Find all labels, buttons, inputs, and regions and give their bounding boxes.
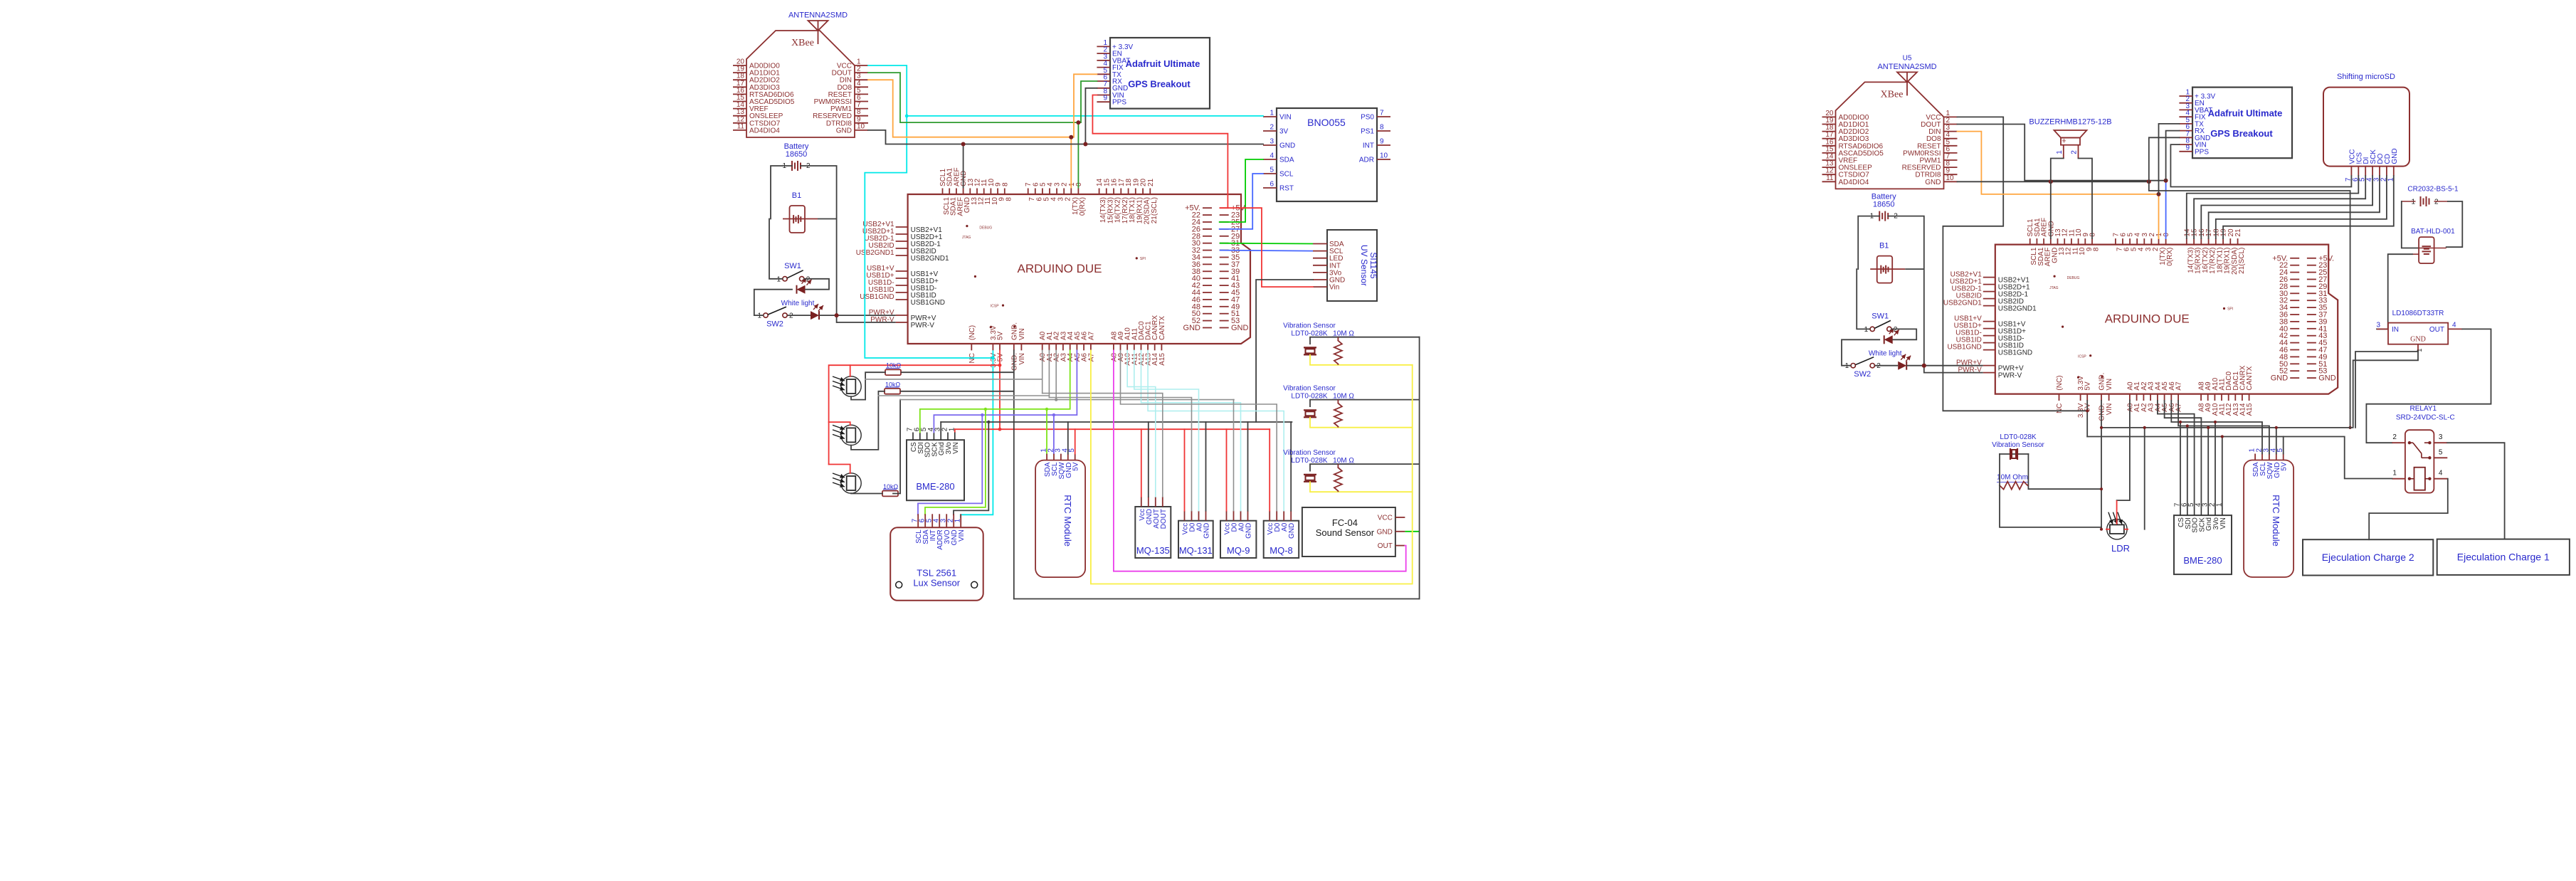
junction ldr right	[2143, 426, 2146, 429]
wire BME Gnd up (right)	[2207, 428, 2209, 508]
junction red 5v	[998, 364, 1002, 367]
svg-text:BME-280: BME-280	[2183, 555, 2222, 566]
svg-text:GND: GND	[1245, 523, 1253, 539]
svg-text:GND: GND	[2318, 374, 2336, 383]
svg-text:2: 2	[2071, 150, 2079, 154]
svg-text:TSL 2561: TSL 2561	[917, 567, 956, 578]
TSL 2561 lux sensor	[890, 514, 983, 601]
wire battery2 down (right)	[1888, 216, 1924, 373]
svg-text:ARDUINO DUE: ARDUINO DUE	[1017, 262, 1102, 275]
Arduino Due (right)	[1943, 218, 2338, 421]
svg-text:XBee: XBee	[1881, 89, 1904, 100]
battery 18650 (left)	[782, 142, 811, 171]
svg-text:White light: White light	[1869, 349, 1902, 357]
svg-text:VCC: VCC	[1378, 515, 1393, 522]
svg-text:RELAY1: RELAY1	[2410, 405, 2437, 413]
svg-text:PWR-V: PWR-V	[1998, 372, 2022, 380]
wire LDR3 out	[851, 492, 882, 494]
svg-text:7: 7	[1380, 110, 1384, 117]
svg-text:3: 3	[2439, 433, 2443, 441]
svg-text:ICSP: ICSP	[2078, 354, 2086, 359]
wire microSD pin4	[2201, 176, 2372, 238]
svg-text:21: 21	[1147, 178, 1155, 186]
svg-text:VIN: VIN	[2219, 517, 2227, 529]
battery 18650 (right)	[1870, 193, 1899, 221]
vibration sensor LDT0-028K (right)	[1992, 433, 2044, 490]
svg-text:VIN: VIN	[1279, 114, 1292, 122]
wire SW2-LED2 (right)	[1875, 365, 1899, 366]
svg-text:1: 1	[1845, 362, 1849, 370]
svg-text:5V: 5V	[997, 331, 1005, 340]
svg-text:9: 9	[1103, 95, 1107, 102]
wire PWR-V stub	[837, 322, 896, 323]
wire A7 rail (right)	[2178, 401, 2269, 454]
MQ-131 gas sensor	[1178, 511, 1213, 558]
wire gray A9-MQ8 D0	[1121, 350, 1277, 510]
wire LED to SW2	[754, 290, 792, 315]
svg-text:ANTENNA2SMD: ANTENNA2SMD	[788, 11, 848, 20]
svg-text:RTC Module: RTC Module	[1062, 495, 1073, 547]
svg-text:10: 10	[857, 122, 865, 130]
svg-text:2: 2	[2392, 433, 2397, 441]
resistor R1 10k	[885, 362, 902, 375]
svg-text:ARDUINO DUE: ARDUINO DUE	[2105, 312, 2190, 326]
svg-text:PS0: PS0	[1361, 114, 1374, 122]
svg-text:MQ-131: MQ-131	[1179, 545, 1213, 556]
svg-text:GND: GND	[1203, 523, 1211, 539]
wire GPS RX (right)	[2166, 131, 2180, 181]
XBee U5 (right)	[1822, 54, 1958, 189]
svg-text:Adafruit Ultimate: Adafruit Ultimate	[2208, 108, 2283, 119]
svg-text:6: 6	[1269, 181, 1274, 189]
wire red RTC 5V	[1075, 429, 1076, 453]
svg-text:CR2032-BS-5-1: CR2032-BS-5-1	[2407, 185, 2459, 193]
svg-text:OUT: OUT	[1378, 542, 1393, 550]
svg-text:10: 10	[1380, 152, 1388, 160]
photoresistor LDR1 (left)	[833, 376, 861, 396]
wire LDT resistor stubs	[2000, 485, 2028, 486]
svg-text:A7: A7	[2175, 381, 2183, 391]
wire red MQ Vcc	[1269, 429, 1270, 511]
svg-text:VIN: VIN	[1018, 353, 1026, 365]
wire green SI SDA	[1220, 243, 1313, 245]
wire orange 1TX drop	[1070, 137, 1072, 189]
LED D1 (left)	[797, 278, 812, 294]
junction dout (right)	[2164, 179, 2168, 183]
svg-text:2: 2	[789, 312, 793, 320]
svg-text:DEBUG: DEBUG	[2067, 276, 2080, 280]
svg-text:OUT: OUT	[2429, 326, 2444, 334]
svg-text:A15: A15	[2246, 403, 2254, 416]
LED D1 (right)	[1884, 328, 1899, 344]
svg-text:SW1: SW1	[784, 262, 801, 270]
wire B1 to SW1	[769, 219, 783, 279]
svg-text:USB1GND: USB1GND	[1947, 344, 1981, 352]
Shifting microSD module	[2323, 73, 2409, 181]
svg-text:VIN: VIN	[2106, 379, 2113, 391]
vibration sensor LDT0-028K #1 + resistor 10M	[1283, 322, 1419, 365]
svg-text:1: 1	[1269, 110, 1274, 117]
svg-text:GND: GND	[2410, 336, 2426, 344]
wire LDR2 out	[851, 391, 885, 450]
svg-text:GND: GND	[1288, 523, 1296, 539]
wire A5 rail (right)	[2165, 401, 2202, 507]
wire XBee GND rail (right)	[1958, 181, 2149, 182]
switch SW1 (left)	[776, 262, 810, 283]
svg-text:GND: GND	[836, 127, 852, 134]
svg-text:PWR-V: PWR-V	[911, 322, 935, 329]
svg-text:8: 8	[2089, 233, 2097, 237]
svg-text:PPS: PPS	[2195, 148, 2209, 156]
svg-text:8: 8	[1005, 197, 1013, 201]
svg-text:0(RX): 0(RX)	[1079, 197, 1087, 216]
wire LDT right out	[2028, 454, 2101, 489]
wire B1 red (right)	[1870, 268, 1905, 270]
MQ-8 gas sensor	[1264, 511, 1299, 558]
wire GPS TX (right)	[2159, 124, 2180, 194]
switch SW2 (right)	[1845, 357, 1881, 379]
svg-text:JTAG: JTAG	[962, 236, 971, 240]
junction 5v (right)	[2086, 409, 2089, 412]
wire violet A5 rail	[934, 350, 1077, 432]
svg-text:1: 1	[954, 518, 962, 522]
wire LED-SW2 (right)	[1842, 339, 1879, 365]
wire lcyan A10-MQ135	[1127, 350, 1156, 497]
wire SW2 to LED2	[788, 315, 811, 316]
svg-text:18650: 18650	[1873, 201, 1895, 209]
junction battery/PWR	[835, 313, 839, 317]
wire LDR1 out	[851, 372, 885, 399]
svg-text:1: 1	[757, 312, 761, 320]
svg-text:U5: U5	[1903, 54, 1912, 62]
photoresistor LDR2 (left)	[833, 425, 861, 445]
svg-text:2: 2	[1876, 362, 1881, 370]
svg-text:NC: NC	[2056, 403, 2064, 413]
svg-text:Shifting microSD: Shifting microSD	[2337, 73, 2395, 81]
wire red LDR top stub	[2116, 500, 2118, 524]
wire B1 to right rail	[818, 218, 837, 220]
wire black BME Gnd	[940, 422, 941, 433]
junction bat (right)	[1922, 364, 1926, 368]
wire microSD pin3	[2209, 176, 2380, 238]
svg-text:A15: A15	[1158, 353, 1166, 366]
vibration sensor LDT0-028K #3 + resistor 10M	[1283, 449, 1419, 492]
RTC module (left)	[1035, 448, 1085, 578]
wire BME VIN up (right)	[2222, 437, 2223, 508]
junction lawn	[1045, 408, 1048, 411]
svg-text:BNO055: BNO055	[1307, 117, 1346, 128]
svg-text:8: 8	[1380, 124, 1384, 132]
svg-text:21: 21	[2234, 228, 2242, 237]
Adafruit Ultimate GPS Breakout (left)	[1097, 38, 1210, 109]
svg-text:AD4DIO4: AD4DIO4	[749, 127, 780, 134]
wire A6 rail (right)	[2171, 401, 2262, 454]
svg-text:UV Sensor: UV Sensor	[1359, 245, 1369, 286]
svg-text:9: 9	[2185, 144, 2190, 152]
wire GND vert (right)	[2101, 401, 2102, 529]
wire gray MQ9 D0 drop	[1233, 400, 1235, 511]
svg-text:BAT-HLD-001: BAT-HLD-001	[2411, 228, 2455, 236]
wire GPS VIN microSD (right)	[2170, 144, 2351, 186]
wire red GPS VIN to +5V	[1092, 95, 1228, 209]
wire black SI GND	[1256, 280, 1313, 422]
wire red BME VIN	[954, 429, 956, 432]
wire red LDR left stub	[2106, 529, 2110, 530]
svg-text:IN: IN	[2392, 326, 2399, 334]
svg-text:10M Ohm: 10M Ohm	[1997, 474, 2028, 482]
Ejeculation Charge 2 box	[2303, 539, 2433, 575]
wire BME 3Vo up (right)	[2215, 422, 2216, 507]
svg-text:SRD-24VDC-SL-C: SRD-24VDC-SL-C	[2396, 414, 2455, 422]
svg-text:GND: GND	[1925, 179, 1941, 186]
wire GPS GND long (right)	[2149, 137, 2350, 428]
wire LED2-PWR+V (right)	[1906, 365, 1983, 366]
svg-text:ICSP: ICSP	[991, 305, 999, 309]
wire red LDR3 stem	[829, 465, 850, 474]
junction green	[1076, 120, 1080, 125]
svg-text:VIN: VIN	[958, 529, 966, 542]
svg-text:Vibration Sensor: Vibration Sensor	[1992, 441, 2044, 449]
svg-text:GND.: GND.	[1010, 353, 1018, 371]
svg-text:Adafruit Ultimate: Adafruit Ultimate	[1126, 58, 1200, 69]
svg-text:USB2GND1: USB2GND1	[911, 255, 949, 263]
junction bme3vo (right)	[2214, 421, 2217, 423]
white light LED (left)	[781, 300, 823, 320]
svg-text:ANTENNA2SMD: ANTENNA2SMD	[1877, 63, 1936, 71]
wire BATHLD to LD IN	[2377, 254, 2412, 329]
wire blue 0RX (right)	[2165, 181, 2167, 238]
junction gnd gps2	[2147, 179, 2151, 184]
MQ-9 gas sensor	[1220, 511, 1256, 558]
svg-text:11: 11	[737, 122, 745, 130]
svg-text:18650: 18650	[786, 150, 808, 159]
svg-text:GND: GND	[2391, 148, 2399, 164]
svg-text:SPI: SPI	[2227, 307, 2233, 312]
junction gnd gps	[1083, 142, 1087, 147]
svg-text:MQ-135: MQ-135	[1136, 545, 1170, 556]
svg-text:MQ-9: MQ-9	[1227, 545, 1250, 556]
svg-text:SPI: SPI	[1140, 257, 1146, 261]
svg-text:LDT0-028K: LDT0-028K	[2000, 433, 2036, 441]
wire red MQ Vcc	[1184, 429, 1186, 511]
wire red LDR2 stem	[829, 422, 850, 425]
wire green 0RX drop	[1077, 122, 1079, 188]
SI1145 UV sensor	[1313, 230, 1378, 301]
photoresistor LDR (right)	[2107, 512, 2130, 554]
svg-text:SDA: SDA	[1279, 157, 1294, 164]
svg-text:VIN: VIN	[2106, 403, 2113, 416]
svg-text:21(SCL): 21(SCL)	[2238, 248, 2246, 274]
wire LDR2 tap A1	[878, 395, 1049, 396]
battery holder BAT-HLD-001	[2411, 228, 2455, 263]
wire black GND rail	[941, 421, 1292, 423]
svg-text:3V: 3V	[1279, 128, 1289, 136]
junction ldt out	[2100, 487, 2103, 490]
svg-text:Vibration Sensor: Vibration Sensor	[1283, 384, 1336, 392]
svg-text:Vibration Sensor: Vibration Sensor	[1283, 322, 1336, 330]
svg-text:9: 9	[1380, 138, 1384, 146]
svg-text:11: 11	[1826, 174, 1834, 182]
svg-text:XBee: XBee	[791, 38, 814, 48]
svg-text:0(RX): 0(RX)	[2166, 248, 2174, 266]
svg-text:3: 3	[2376, 321, 2380, 329]
wire microSD pin5	[2194, 176, 2365, 238]
svg-text:LDR: LDR	[2111, 543, 2130, 554]
wire RTC GND up (right)	[2276, 428, 2277, 454]
wire PWR-V stub (right)	[1924, 372, 1983, 374]
junction lawn tsl	[984, 408, 987, 411]
svg-text:White light: White light	[781, 300, 815, 307]
svg-text:GND: GND	[1279, 142, 1295, 150]
svg-text:(NC): (NC)	[2056, 375, 2064, 390]
svg-text:2: 2	[2434, 199, 2439, 206]
wire microSD pin2	[2216, 176, 2387, 238]
svg-text:GND.: GND.	[1010, 322, 1018, 340]
junction violet	[1052, 413, 1055, 416]
svg-text:CANTX: CANTX	[2246, 366, 2254, 390]
svg-text:B1: B1	[1879, 242, 1889, 250]
wire lawn TSL SDA	[925, 409, 986, 515]
svg-text:RTC Module: RTC Module	[2271, 495, 2281, 547]
svg-text:21(SCL): 21(SCL)	[1151, 197, 1158, 223]
svg-text:5V: 5V	[2084, 381, 2092, 391]
svg-text:SI1145: SI1145	[1368, 252, 1378, 278]
svg-text:ADR: ADR	[1359, 157, 1374, 164]
wire black MQ GND	[1290, 422, 1292, 511]
svg-text:GPS Breakout: GPS Breakout	[2210, 128, 2273, 139]
wire XBee DIN orange (right)	[1958, 132, 2159, 239]
buzzer HMB1275-12B	[2029, 118, 2111, 159]
wire violet RTC SCL drop	[1053, 415, 1055, 454]
wire R3 up	[893, 400, 900, 494]
RTC module (right)	[2244, 448, 2293, 578]
svg-text:B1: B1	[792, 191, 801, 200]
wire lcyan A13-MQ8	[1148, 350, 1284, 510]
BME-280 sensor (left)	[907, 427, 965, 500]
wire gray A0-MQ135 DOUT	[1042, 394, 1163, 497]
wire blue BNO SCL	[1220, 174, 1263, 229]
wire LED2 to PWR+V	[819, 315, 896, 316]
wire lawn RTC SDA drop	[1046, 409, 1047, 454]
junction black tsl	[987, 421, 990, 423]
svg-text:VIN: VIN	[952, 442, 960, 454]
junction cyan	[905, 115, 909, 118]
svg-text:JTAG: JTAG	[2049, 286, 2059, 290]
wire LDR top staircase	[2117, 400, 2130, 500]
resistor R2 10k	[885, 381, 901, 394]
wire green FC04 GND	[1405, 531, 1419, 532]
svg-text:5V: 5V	[2281, 462, 2289, 471]
wire B1 to SW1 (right)	[1857, 269, 1870, 329]
junction red rail	[998, 428, 1002, 431]
svg-text:1: 1	[2411, 199, 2415, 206]
junction din (right)	[2157, 192, 2161, 196]
svg-text:+: +	[2062, 137, 2066, 146]
wire gnd rail 601 (right)	[2101, 352, 2418, 428]
wire lcyan A11-MQ131	[1134, 350, 1199, 510]
svg-text:RST: RST	[1279, 185, 1294, 193]
svg-text:Vin: Vin	[1329, 284, 1339, 292]
photoresistor LDR3 (left)	[833, 473, 861, 493]
junction orange	[1069, 135, 1073, 139]
relay RELAY1 SRD-24VDC-SL-C	[2392, 405, 2454, 492]
wire cyan XBee VCC net	[865, 65, 993, 517]
junction violet tsl	[981, 413, 983, 416]
wire A1 drop	[1048, 350, 1050, 397]
svg-text:DEBUG: DEBUG	[979, 226, 992, 231]
junction cyan 3.3V	[991, 357, 995, 360]
svg-text:BME-280: BME-280	[916, 481, 954, 492]
wire red LDR1 stem	[850, 365, 851, 376]
junction rtcgnd (right)	[2275, 426, 2278, 429]
junction bmevin (right)	[2221, 435, 2224, 438]
BME-280 sensor (right)	[2174, 502, 2232, 574]
Ejeculation Charge 1 box	[2437, 539, 2570, 575]
wire A2 drop	[1055, 350, 1057, 399]
svg-text:USB2GND1: USB2GND1	[1943, 300, 1982, 307]
wire black XBee GND rail	[868, 130, 1263, 144]
svg-text:1: 1	[1864, 326, 1869, 334]
wire LDT left down	[2000, 454, 2101, 527]
wire black vib bus	[1419, 337, 1420, 599]
junction gnd (right)	[2100, 426, 2103, 429]
svg-text:5: 5	[2439, 448, 2443, 456]
junction bmegnd (right)	[2207, 426, 2210, 429]
svg-text:10: 10	[1946, 174, 1955, 182]
white light LED (right)	[1869, 349, 1911, 369]
wire black MQ135 GND	[1148, 422, 1149, 497]
junction A2	[1055, 398, 1057, 401]
wire LDR1 tap A0	[865, 379, 1042, 380]
svg-text:USB2GND1: USB2GND1	[1998, 305, 2037, 313]
svg-text:Sound Sensor: Sound Sensor	[1316, 527, 1375, 538]
wire buzzer pin1 to GND pin	[2051, 159, 2064, 239]
svg-text:USB2GND1: USB2GND1	[856, 249, 894, 257]
wire relay pin4 to EJ2	[2369, 479, 2448, 540]
wire GPS GND drop	[1085, 88, 1097, 144]
svg-text:8: 8	[1001, 182, 1009, 186]
svg-text:4: 4	[2439, 470, 2443, 478]
svg-text:GPS Breakout: GPS Breakout	[1128, 79, 1191, 90]
wire LD OUT to relay pin2	[2366, 329, 2491, 443]
svg-text:5V: 5V	[997, 353, 1005, 362]
svg-text:GND: GND	[1377, 528, 1393, 536]
svg-text:CANTX: CANTX	[1158, 316, 1166, 340]
BNO055 IMU	[1263, 108, 1390, 201]
XBee U1 (left)	[733, 11, 868, 138]
wire GND top pin drop	[963, 144, 964, 189]
svg-text:0: 0	[1075, 182, 1083, 186]
LD1086DT33TR regulator	[2376, 310, 2462, 352]
svg-text:Ejeculation Charge 2: Ejeculation Charge 2	[2322, 552, 2414, 563]
svg-text:GND: GND	[1231, 324, 1249, 332]
junction bmesdi (right)	[2186, 424, 2189, 427]
wire LDR right up	[2144, 428, 2145, 529]
wire red MQ Vcc	[1141, 429, 1142, 497]
junction ldr left	[2100, 528, 2103, 531]
svg-text:AD4DIO4: AD4DIO4	[1839, 179, 1869, 186]
wire green XBee DOUT	[868, 73, 1097, 122]
svg-text:A7: A7	[2175, 403, 2183, 412]
resistor R3 10k	[882, 483, 899, 496]
junction gnd arduino	[961, 142, 966, 147]
svg-text:4: 4	[1269, 152, 1274, 160]
wire black bottom rail	[1014, 598, 1420, 600]
wire battery+ to B1 (right)	[1858, 216, 1879, 270]
battery holder B1 (right)	[1877, 242, 1893, 283]
wire R2 to GND	[900, 391, 1014, 392]
wire A0 drop	[1042, 350, 1043, 393]
